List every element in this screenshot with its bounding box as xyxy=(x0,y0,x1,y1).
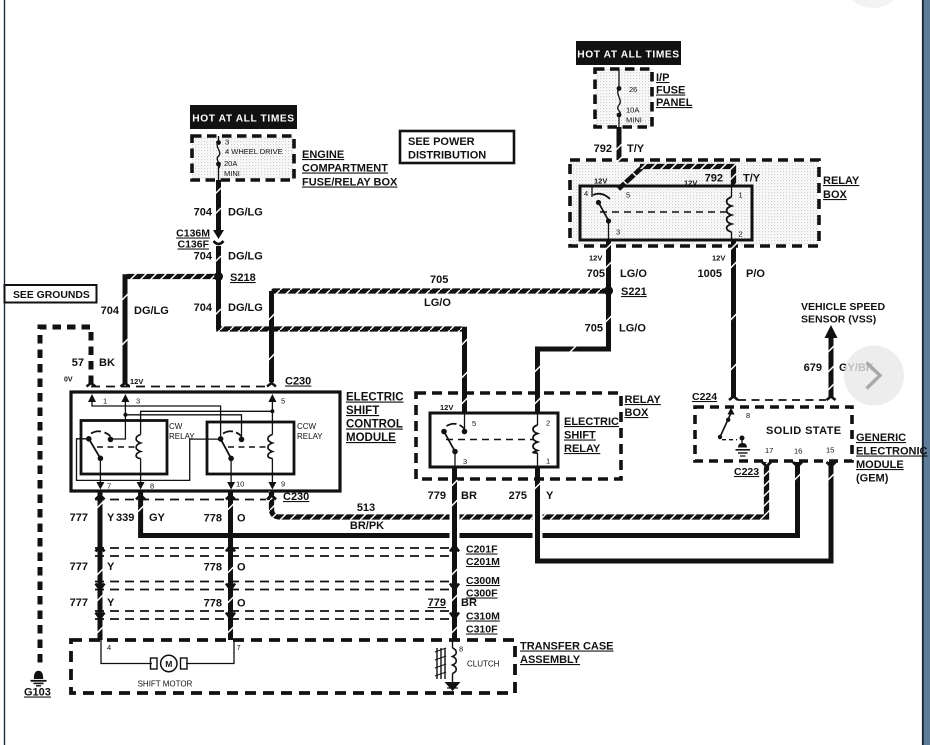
svg-text:20A: 20A xyxy=(224,159,237,168)
svg-text:7: 7 xyxy=(107,482,111,491)
svg-text:12V: 12V xyxy=(594,177,607,186)
wire end flare 679 at C224 xyxy=(827,393,836,400)
clutch ground xyxy=(445,682,461,691)
svg-text:779: 779 xyxy=(428,490,446,502)
connector C230 dashed line (module bottom) xyxy=(95,499,266,501)
svg-text:HOT AT ALL TIMES: HOT AT ALL TIMES xyxy=(577,50,679,61)
svg-text:705: 705 xyxy=(430,274,448,286)
wire 679 GY/BK xyxy=(829,337,834,397)
pin3 branch to CCW contact xyxy=(125,415,241,440)
shift motor M xyxy=(151,658,158,669)
svg-text:O: O xyxy=(237,562,246,574)
relay box (electric shift) dashed xyxy=(416,393,621,479)
connector chevrons on wire 779 xyxy=(450,546,459,552)
svg-text:8: 8 xyxy=(150,482,154,491)
wire 779 BR (relay pin3 down) xyxy=(450,484,460,640)
module pin 3 arrow xyxy=(121,394,129,402)
page left border line xyxy=(4,0,6,745)
fuse 26 10A MINI xyxy=(618,69,621,127)
svg-text:1: 1 xyxy=(546,457,550,466)
svg-text:1: 1 xyxy=(103,397,107,406)
wire 57 BK dashed (ground path) xyxy=(40,327,91,668)
CW relay box xyxy=(81,421,167,475)
splice S221 dot (redraw) xyxy=(604,287,613,296)
wire 705 into relay pin2 xyxy=(535,390,540,413)
svg-text:COMPARTMENT: COMPARTMENT xyxy=(302,163,388,175)
svg-text:S218: S218 xyxy=(230,272,256,284)
svg-text:SEE GROUNDS: SEE GROUNDS xyxy=(13,290,90,301)
svg-text:Y: Y xyxy=(107,512,115,524)
svg-text:C223: C223 xyxy=(734,466,759,478)
svg-text:777: 777 xyxy=(70,512,88,524)
svg-text:ELECTRIC: ELECTRIC xyxy=(346,392,404,404)
splice S218 xyxy=(214,272,223,281)
CW relay coil xyxy=(136,435,141,459)
wire slash ticks (scan style) xyxy=(97,157,834,633)
GEM internal switch to ground xyxy=(728,408,735,415)
clutch core xyxy=(436,648,438,679)
svg-text:P/O: P/O xyxy=(746,268,765,280)
nav chevron button xyxy=(844,346,904,406)
module pin 8 arrow xyxy=(137,482,145,490)
svg-text:339: 339 xyxy=(116,512,134,524)
svg-text:CONTROL: CONTROL xyxy=(346,419,403,431)
svg-text:12V: 12V xyxy=(712,254,725,263)
svg-text:ELECTRONIC: ELECTRONIC xyxy=(856,446,928,458)
decorative partial circle top right xyxy=(841,0,905,8)
svg-text:3: 3 xyxy=(225,138,229,147)
svg-text:DG/LG: DG/LG xyxy=(134,305,169,317)
svg-text:MINI: MINI xyxy=(224,169,240,178)
shift motor wiring xyxy=(101,640,152,664)
svg-text:MODULE: MODULE xyxy=(346,432,396,444)
svg-text:7: 7 xyxy=(237,643,241,652)
svg-text:Y: Y xyxy=(107,597,115,609)
svg-text:DG/LG: DG/LG xyxy=(228,251,263,263)
CW relay dashed link xyxy=(97,446,137,448)
svg-text:704: 704 xyxy=(194,207,213,219)
svg-text:777: 777 xyxy=(70,561,88,573)
svg-text:ELECTRIC: ELECTRIC xyxy=(564,416,619,428)
module pin 5 arrow xyxy=(268,394,276,402)
svg-text:792: 792 xyxy=(594,143,612,155)
splice S221 xyxy=(604,286,613,295)
svg-text:778: 778 xyxy=(204,598,222,610)
svg-text:9: 9 xyxy=(281,480,285,489)
svg-text:8: 8 xyxy=(459,645,463,654)
connector row C300 dashed lines xyxy=(95,581,450,583)
page right slate bar xyxy=(923,0,930,745)
battery saver relay xyxy=(580,186,752,240)
GEM internal ground xyxy=(736,449,751,451)
wire 705 LG/O (S221 left run to C230) xyxy=(272,288,609,293)
wire 513 BR/PK (pin9 via C230 to GEM pin17) xyxy=(272,462,767,517)
I/P fuse panel box xyxy=(595,69,652,127)
wire 705 LG/O (S221 down to shift relay) xyxy=(538,291,609,392)
svg-text:777: 777 xyxy=(70,597,88,609)
electric shift control module box xyxy=(71,392,340,491)
svg-text:C230: C230 xyxy=(285,376,311,388)
svg-text:SEE POWER: SEE POWER xyxy=(408,136,475,148)
svg-text:C201F: C201F xyxy=(466,544,498,556)
svg-text:C201M: C201M xyxy=(466,556,500,568)
svg-text:C300M: C300M xyxy=(466,575,500,587)
svg-text:(GEM): (GEM) xyxy=(856,473,889,485)
transfer case assembly box dashed xyxy=(71,640,515,693)
svg-text:26: 26 xyxy=(629,85,637,94)
svg-text:FUSE: FUSE xyxy=(656,85,685,97)
svg-text:4: 4 xyxy=(107,643,111,652)
svg-text:3: 3 xyxy=(136,397,140,406)
svg-text:O: O xyxy=(237,598,246,610)
module pin 1 arrow xyxy=(88,394,96,402)
wire 704 DG/LG (fuse to C136) xyxy=(216,180,221,231)
connector C230 dashed line (module top) xyxy=(91,386,268,388)
svg-text:DISTRIBUTION: DISTRIBUTION xyxy=(408,150,486,162)
fuse 4WD 20A MINI xyxy=(217,136,220,180)
svg-text:12V: 12V xyxy=(440,403,453,412)
svg-text:BOX: BOX xyxy=(625,407,650,419)
svg-text:MODULE: MODULE xyxy=(856,459,904,471)
svg-text:705: 705 xyxy=(587,268,605,280)
CW relay switch xyxy=(86,436,92,442)
svg-text:C224: C224 xyxy=(692,391,717,403)
svg-text:513: 513 xyxy=(357,502,375,514)
GEM solid state box dashed xyxy=(695,407,852,461)
wire 704 (S218 left branch, hatched) xyxy=(125,274,219,279)
module pin 10 arrow xyxy=(227,482,235,490)
svg-text:O: O xyxy=(237,513,246,525)
svg-text:5: 5 xyxy=(626,191,630,200)
C230 flare marks under module pins xyxy=(96,495,105,500)
wire 704 into relay pin5 xyxy=(462,327,467,413)
svg-text:705: 705 xyxy=(585,323,603,335)
svg-text:LG/O: LG/O xyxy=(619,323,646,335)
HOT AT ALL TIMES banner (left) xyxy=(190,105,297,129)
svg-text:17: 17 xyxy=(765,446,773,455)
svg-text:FUSE/RELAY BOX: FUSE/RELAY BOX xyxy=(302,177,398,189)
svg-text:778: 778 xyxy=(204,513,222,525)
svg-text:5: 5 xyxy=(472,419,476,428)
svg-text:I/P: I/P xyxy=(656,72,669,84)
GEM pin flares at C223 xyxy=(762,462,771,470)
svg-text:GENERIC: GENERIC xyxy=(856,432,906,444)
svg-text:RELAY: RELAY xyxy=(625,394,662,406)
svg-text:4 WHEEL DRIVE: 4 WHEEL DRIVE xyxy=(225,147,283,156)
battery saver relay dashed link xyxy=(600,211,727,213)
HOT AT ALL TIMES banner (right) xyxy=(576,41,681,65)
svg-text:792: 792 xyxy=(705,173,723,185)
svg-text:BK: BK xyxy=(99,357,115,369)
common wrap link CW-CCW xyxy=(77,439,220,481)
SEE GROUNDS box xyxy=(5,285,97,303)
svg-text:M: M xyxy=(165,659,172,669)
wire 704 (S218 down then right to relay) xyxy=(216,277,221,330)
wire 1005 P/O (relay pin2 to GEM C224) xyxy=(731,240,736,397)
wire 777 Y (pin7 down) xyxy=(98,491,103,640)
svg-text:0V: 0V xyxy=(64,377,73,384)
svg-text:RELAY: RELAY xyxy=(564,443,601,455)
pin5 internal wire to coils xyxy=(271,400,273,435)
svg-text:Y: Y xyxy=(546,490,554,502)
svg-text:10A: 10A xyxy=(626,106,639,115)
wire 704 DG/LG (C136 to S218) xyxy=(216,246,221,276)
svg-text:C310F: C310F xyxy=(466,624,498,636)
wire 705 LG/O (relay pin3 to S221) xyxy=(606,240,611,290)
wire end flare 57BK at 0V xyxy=(87,379,96,387)
svg-text:Y: Y xyxy=(107,561,115,573)
clutch coil xyxy=(452,640,454,648)
svg-text:C310M: C310M xyxy=(466,611,500,623)
svg-text:VEHICLE SPEED: VEHICLE SPEED xyxy=(801,301,885,313)
svg-text:HOT AT ALL TIMES: HOT AT ALL TIMES xyxy=(192,114,294,125)
wire end flare 704 at 12V xyxy=(121,380,130,387)
svg-text:1005: 1005 xyxy=(698,268,722,280)
svg-text:4: 4 xyxy=(584,189,588,198)
svg-text:12V: 12V xyxy=(589,254,602,263)
svg-text:GY: GY xyxy=(149,512,166,524)
svg-text:3: 3 xyxy=(463,457,467,466)
splice S218 dot (redraw) xyxy=(214,272,223,281)
shift relay switch xyxy=(464,413,466,432)
svg-text:57: 57 xyxy=(72,357,84,369)
svg-text:ASSEMBLY: ASSEMBLY xyxy=(520,654,581,666)
svg-text:15: 15 xyxy=(826,446,834,455)
wire 792 T/Y xyxy=(617,127,622,186)
connector row C310 dashed lines xyxy=(95,610,450,612)
svg-text:275: 275 xyxy=(509,490,527,502)
svg-text:T/Y: T/Y xyxy=(627,143,645,155)
svg-text:TRANSFER CASE: TRANSFER CASE xyxy=(520,641,614,653)
svg-text:T/Y: T/Y xyxy=(743,173,761,185)
engine compartment fuse/relay box xyxy=(192,136,294,180)
CCW relay box xyxy=(207,422,294,474)
svg-text:DG/LG: DG/LG xyxy=(228,207,263,219)
svg-text:DG/LG: DG/LG xyxy=(228,302,263,314)
svg-text:G103: G103 xyxy=(24,687,51,699)
battery saver relay switch xyxy=(591,186,593,197)
svg-text:C136F: C136F xyxy=(177,239,209,251)
svg-text:SHIFT MOTOR: SHIFT MOTOR xyxy=(138,680,193,689)
CCW relay dashed link xyxy=(228,446,268,448)
svg-text:2: 2 xyxy=(546,419,550,428)
wire end flare 1005 at C224 xyxy=(729,393,738,400)
svg-text:1: 1 xyxy=(739,191,743,200)
svg-text:10: 10 xyxy=(236,480,244,489)
svg-text:679: 679 xyxy=(804,362,822,374)
svg-text:2: 2 xyxy=(739,230,743,239)
CCW relay switch xyxy=(218,436,224,442)
svg-text:704: 704 xyxy=(194,251,213,263)
svg-text:8: 8 xyxy=(746,411,750,420)
connector C136M / C136F xyxy=(213,230,224,239)
connector row C201 dashed lines xyxy=(95,547,450,549)
svg-text:779: 779 xyxy=(428,597,446,609)
svg-text:ENGINE: ENGINE xyxy=(302,149,344,161)
wire 275 Y (relay pin1 to GEM pin15) xyxy=(538,484,832,561)
svg-text:C230: C230 xyxy=(283,491,309,503)
module pin 9 arrow xyxy=(268,482,276,490)
svg-text:RELAY: RELAY xyxy=(169,432,195,441)
wire 778 O (pin10 down) xyxy=(228,491,233,640)
connector C224 dashed line xyxy=(738,399,826,401)
svg-text:SHIFT: SHIFT xyxy=(564,430,596,442)
svg-text:16: 16 xyxy=(794,447,802,456)
link pin5 to CW coil xyxy=(141,411,273,434)
svg-text:SOLID STATE: SOLID STATE xyxy=(766,425,842,437)
svg-text:SHIFT: SHIFT xyxy=(346,405,379,417)
pin3 internal wire xyxy=(111,400,125,439)
svg-text:BOX: BOX xyxy=(823,189,848,201)
wire 339 GY (pin8 to GEM pin16) xyxy=(141,462,798,536)
svg-text:CW: CW xyxy=(169,422,183,431)
svg-text:RELAY: RELAY xyxy=(297,432,323,441)
svg-text:BR: BR xyxy=(461,490,477,502)
svg-text:CCW: CCW xyxy=(297,422,317,431)
electric shift relay xyxy=(430,413,558,467)
svg-text:704: 704 xyxy=(194,302,213,314)
svg-text:SENSOR (VSS): SENSOR (VSS) xyxy=(801,314,876,326)
module pin 7 arrow xyxy=(96,482,104,490)
connector chevrons on wire 777 xyxy=(96,546,105,552)
wire 705 C230 leg xyxy=(269,291,274,382)
svg-text:S221: S221 xyxy=(621,286,647,298)
svg-text:LG/O: LG/O xyxy=(424,297,451,309)
svg-text:RELAY: RELAY xyxy=(823,175,860,187)
battery saver relay coil xyxy=(731,186,733,240)
wire 704 left leg down xyxy=(123,274,128,383)
SEE POWER DISTRIBUTION box xyxy=(400,131,514,163)
svg-text:BR/PK: BR/PK xyxy=(350,520,384,532)
CCW relay coil xyxy=(268,435,273,459)
svg-text:LG/O: LG/O xyxy=(620,268,647,280)
hatched jumper 792 inside relay box xyxy=(619,168,643,190)
svg-text:BR: BR xyxy=(461,597,477,609)
svg-text:12V: 12V xyxy=(130,377,143,386)
pin1 internal wire to CCW common xyxy=(92,400,221,439)
svg-text:CLUTCH: CLUTCH xyxy=(467,660,500,669)
connector chevrons on wire 778 xyxy=(226,546,235,552)
shift relay coil xyxy=(537,413,539,467)
svg-text:5: 5 xyxy=(281,397,285,406)
ground G103 xyxy=(34,671,43,679)
svg-text:MINI: MINI xyxy=(626,116,642,125)
shift relay dashed link xyxy=(446,439,534,441)
svg-text:PANEL: PANEL xyxy=(656,97,693,109)
svg-text:778: 778 xyxy=(204,562,222,574)
svg-text:704: 704 xyxy=(101,305,120,317)
relay box (battery saver) dashed xyxy=(570,160,819,246)
svg-text:3: 3 xyxy=(616,228,620,237)
